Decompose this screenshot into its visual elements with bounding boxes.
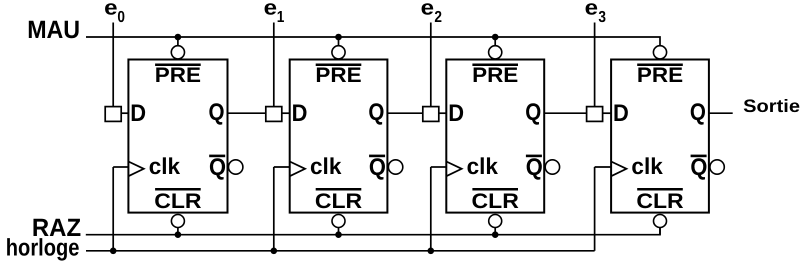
svg-text:clk: clk: [631, 153, 663, 179]
U1 CLR bubble: [171, 215, 184, 228]
wire U1 CLR to RAZ: [177, 228, 179, 235]
svg-text:e: e: [421, 0, 434, 20]
svg-text:Sortie: Sortie: [743, 96, 800, 116]
U4 PRE bubble: [653, 46, 666, 59]
svg-text:MAU: MAU: [27, 16, 80, 44]
svg-text:PRE: PRE: [315, 64, 361, 87]
junction dot horloge/U1: [110, 248, 117, 255]
junction dot MAU/U2: [335, 34, 342, 41]
input terminal square S3: [423, 107, 439, 122]
svg-text:horloge: horloge: [6, 234, 80, 261]
svg-text:PRE: PRE: [155, 64, 201, 87]
wire U2 clk stub: [274, 166, 290, 168]
wire U4 D stub: [603, 112, 612, 114]
U1 pin label Qbar: [209, 154, 226, 181]
U3 clk edge triangle: [446, 162, 461, 177]
svg-text:clk: clk: [467, 153, 499, 179]
U3 PRE bubble: [489, 46, 502, 59]
wire RAZ bus: [86, 228, 660, 235]
node e3 label: [585, 0, 606, 26]
wire MAU to U2 PRE: [338, 37, 340, 46]
wire U2 D stub: [282, 112, 290, 114]
wire U4 clk to horloge: [594, 167, 596, 251]
flip-flop U4 body: [611, 60, 709, 213]
flip-flop U1 body: [128, 60, 227, 213]
svg-text:3: 3: [598, 9, 606, 26]
wire e0 input: [112, 23, 114, 107]
wire MAU to U1 PRE: [177, 37, 179, 46]
node e2 label: [421, 0, 442, 26]
U1 pin label CLR: [154, 188, 201, 213]
svg-text:Q: Q: [690, 154, 707, 181]
input terminal square S4: [587, 107, 603, 122]
flip-flop U2 body: [290, 60, 388, 213]
wire U4 clk stub: [595, 166, 612, 168]
junction dot horloge/U2: [271, 248, 278, 255]
U3 pin label Qbar: [526, 154, 543, 181]
wire horloge bus: [86, 250, 595, 252]
U3 pin label CLR: [472, 188, 519, 213]
U1 Qbar bubble: [229, 160, 243, 174]
svg-text:e: e: [585, 0, 598, 20]
junction dot MAU/U3: [492, 34, 499, 41]
svg-text:CLR: CLR: [636, 190, 683, 213]
svg-text:Q: Q: [209, 154, 226, 181]
U4 clk edge triangle: [611, 162, 626, 177]
wire U3 clk to horloge: [430, 167, 432, 251]
wire U4 Q output: [709, 112, 733, 114]
U4 CLR bubble: [654, 215, 667, 228]
wire U1 clk stub: [113, 166, 128, 168]
svg-text:clk: clk: [310, 153, 342, 179]
wire U1 clk to horloge: [112, 167, 114, 251]
U2 CLR bubble: [332, 215, 345, 228]
U1 PRE bubble: [171, 46, 184, 59]
wire U3 Q output: [544, 112, 586, 114]
wire U2 clk to horloge: [273, 167, 275, 251]
svg-text:1: 1: [277, 9, 285, 26]
U4 pin label PRE: [637, 64, 683, 88]
svg-text:CLR: CLR: [154, 190, 201, 213]
wire e2 input: [430, 23, 432, 107]
svg-text:Q: Q: [526, 154, 543, 181]
wire MAU to U3 PRE: [494, 37, 496, 46]
svg-text:D: D: [613, 100, 629, 127]
wire e1 input: [273, 23, 275, 107]
svg-text:Q: Q: [369, 154, 386, 181]
U3 Qbar bubble: [545, 160, 559, 174]
svg-text:PRE: PRE: [472, 64, 518, 87]
junction dot horloge/U3: [428, 248, 435, 255]
junction dot RAZ/U3: [492, 231, 499, 238]
wire U1 D stub: [121, 112, 128, 114]
U1 pin label PRE: [155, 64, 201, 88]
wire U3 clk stub: [431, 166, 447, 168]
U2 pin label Qbar: [369, 154, 386, 181]
wire U3 D stub: [439, 112, 447, 114]
U4 pin label Qbar: [690, 154, 707, 181]
svg-text:2: 2: [434, 9, 442, 26]
U3 CLR bubble: [489, 215, 502, 228]
input terminal square S2: [266, 107, 282, 122]
flip-flop U3 body: [446, 60, 544, 213]
svg-text:e: e: [264, 0, 277, 20]
wire U4 CLR to RAZ: [659, 228, 661, 235]
svg-text:D: D: [448, 100, 464, 127]
wire U2 Q output: [387, 112, 422, 114]
svg-text:clk: clk: [149, 153, 181, 179]
node e0 label: [104, 0, 125, 26]
svg-text:Q: Q: [209, 99, 225, 126]
wire MAU bus: [86, 37, 660, 45]
U2 pin label PRE: [315, 64, 361, 88]
svg-text:0: 0: [117, 9, 125, 26]
svg-text:D: D: [130, 100, 146, 127]
U2 PRE bubble: [332, 46, 345, 59]
U4 pin label CLR: [636, 188, 683, 213]
node e1 label: [264, 0, 285, 26]
U2 clk edge triangle: [290, 162, 305, 177]
wire U2 CLR to RAZ: [338, 228, 340, 235]
U4 Qbar bubble: [710, 160, 724, 174]
svg-text:Q: Q: [368, 99, 384, 126]
svg-text:CLR: CLR: [472, 190, 519, 213]
junction dot RAZ/U1: [175, 231, 182, 238]
U2 pin label CLR: [315, 188, 362, 213]
svg-text:CLR: CLR: [315, 190, 362, 213]
wire e3 input: [594, 23, 596, 107]
svg-text:Q: Q: [525, 99, 541, 126]
junction dot MAU/U1: [175, 34, 182, 41]
U1 clk edge triangle: [128, 162, 143, 177]
svg-text:PRE: PRE: [637, 64, 683, 87]
wire U1 Q output: [228, 112, 266, 114]
U3 pin label PRE: [472, 64, 518, 88]
svg-text:D: D: [292, 100, 308, 127]
junction dot RAZ/U2: [335, 231, 342, 238]
input terminal square S1: [105, 107, 121, 122]
svg-text:Q: Q: [690, 99, 706, 126]
U2 Qbar bubble: [388, 160, 402, 174]
svg-text:e: e: [104, 0, 117, 20]
wire U3 CLR to RAZ: [494, 228, 496, 235]
